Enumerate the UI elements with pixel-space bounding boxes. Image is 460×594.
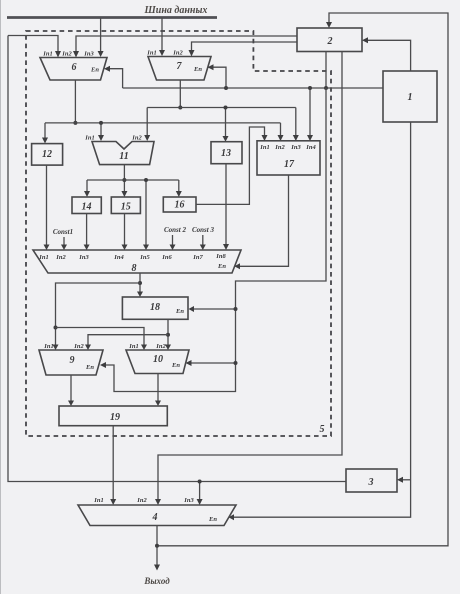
svg-text:En: En [85, 364, 94, 371]
svg-text:In3: In3 [83, 51, 94, 58]
svg-text:Const 2: Const 2 [164, 226, 186, 234]
svg-text:In2: In2 [55, 254, 66, 261]
block 13 [211, 142, 242, 164]
data bus [7, 16, 217, 19]
block 19 [59, 406, 167, 426]
svg-text:Const 3: Const 3 [192, 226, 214, 234]
block 18 [122, 297, 188, 319]
arrow into En of mux 9 [100, 362, 106, 368]
enable chain from rail down the right side [106, 88, 326, 392]
svg-text:9: 9 [70, 355, 75, 366]
svg-text:In1: In1 [42, 51, 52, 58]
block 1 output down the right side [234, 122, 411, 517]
wire block 2 to In2 of mux 6 [73, 36, 297, 58]
mux 4 [78, 497, 236, 526]
wire enable rail to In4 of block 17 [307, 86, 313, 141]
block 2 second output down to In2 of mux 4 [155, 52, 342, 506]
svg-text:In5: In5 [139, 254, 150, 261]
wire rail to In2 of block 17 [278, 123, 284, 141]
block 3 [346, 469, 397, 492]
svg-text:2: 2 [327, 36, 333, 47]
wire In1 of mux 6 from left feedback rail [8, 36, 61, 58]
mux 8 [33, 250, 241, 274]
mux 10 [126, 343, 189, 374]
block 18 output branch to In2 of mux 9 [85, 335, 168, 350]
svg-text:In2: In2 [274, 144, 285, 151]
svg-text:In1: In1 [259, 144, 269, 151]
wire block 14 to In3 of mux 8 [84, 214, 90, 251]
svg-text:In4: In4 [113, 254, 124, 261]
mux 11 [84, 135, 154, 165]
mux 6 output drop [73, 80, 77, 125]
Const 2 input [164, 226, 186, 250]
svg-text:Const1: Const1 [53, 228, 73, 236]
wire rail to block 14 [84, 180, 90, 197]
wire En of block 18 [189, 306, 238, 312]
svg-text:8: 8 [132, 263, 137, 274]
svg-text:En: En [171, 362, 180, 369]
mux 7 output drop [178, 80, 182, 110]
wire block 13 to In8 of mux 8 [223, 164, 229, 250]
mux 9 output to block 19 [68, 375, 74, 406]
svg-text:12: 12 [42, 149, 52, 160]
mux 9 [39, 343, 103, 375]
svg-text:In2: In2 [172, 50, 183, 57]
block 19 output to In1 of mux 4 [110, 426, 116, 505]
mux 8 output branch to mux 9 and mux 10 [53, 283, 141, 350]
svg-text:In1: In1 [84, 135, 94, 142]
block 14 [72, 197, 101, 214]
svg-text:1: 1 [408, 92, 413, 103]
mux 7 output rail [147, 107, 296, 109]
wire rail to In2 of mux 11 [144, 108, 150, 142]
block 15 [111, 197, 140, 214]
wire block 16 to In1 of block 17 [196, 127, 268, 204]
svg-text:In6: In6 [161, 254, 172, 261]
wire enable rail to En of mux 7 [208, 64, 229, 90]
wire rail to block 12 [42, 123, 48, 144]
svg-text:5: 5 [320, 424, 325, 435]
mux 4 output to Выход [154, 526, 160, 571]
svg-text:In3: In3 [290, 144, 301, 151]
svg-text:13: 13 [221, 148, 231, 159]
svg-text:En: En [208, 516, 217, 523]
mux 7 [146, 50, 211, 81]
svg-text:In2: In2 [61, 51, 72, 58]
wire rail to block 16 [176, 180, 182, 197]
feedback wire output to top of block 2 [157, 13, 448, 546]
wire rail to In3 of mux 4 [197, 480, 203, 506]
Const1 input [53, 228, 73, 250]
mux 11 output drop [121, 165, 127, 197]
svg-text:In3: In3 [78, 254, 89, 261]
block 3 output rail to In3 of mux 4 and feedback [8, 36, 346, 482]
svg-text:19: 19 [110, 412, 120, 423]
wire block 12 to In1 of mux 8 [44, 165, 50, 250]
svg-text:En: En [217, 263, 226, 270]
Const 3 input [192, 226, 214, 250]
svg-text:17: 17 [284, 159, 295, 170]
wire block 2 to In2 of mux 7 [189, 42, 298, 57]
svg-text:11: 11 [119, 151, 128, 162]
svg-text:En: En [175, 308, 184, 315]
svg-text:En: En [193, 66, 202, 73]
wire bus to In3 of mux 6 [98, 18, 104, 57]
svg-text:In4: In4 [305, 144, 316, 151]
svg-text:In8: In8 [215, 253, 226, 260]
svg-text:In1: In1 [43, 343, 53, 350]
wire block 17 output to En of mux 8 [234, 175, 288, 269]
svg-text:In2: In2 [73, 343, 84, 350]
enable rail from block 2 bottom to block 1 [123, 87, 383, 89]
svg-text:3: 3 [368, 477, 374, 488]
wire rail to block 13 [223, 106, 229, 142]
wire enable rail to En of mux 6 [104, 66, 123, 88]
svg-text:In1: In1 [146, 50, 156, 57]
svg-text:10: 10 [153, 354, 163, 365]
block 18 output to In2 of mux 10 [165, 319, 171, 350]
wire En of mux 10 [186, 360, 238, 366]
svg-text:4: 4 [152, 512, 158, 523]
block 12 [32, 144, 63, 166]
svg-text:16: 16 [175, 200, 185, 211]
svg-text:Шина данных: Шина данных [144, 5, 208, 16]
svg-text:6: 6 [72, 62, 77, 73]
mux 8 output to block 18 [137, 273, 143, 297]
mux 10 output to block 19 [155, 374, 161, 407]
block 17 [257, 141, 320, 175]
svg-text:In2: In2 [155, 343, 166, 350]
svg-text:In2: In2 [136, 497, 147, 504]
block 16 [163, 197, 196, 212]
mux 11 output rail [87, 179, 179, 181]
mux 6 output rail [45, 122, 281, 124]
wire rail to In5 of mux 8 [143, 178, 149, 250]
svg-text:In1: In1 [93, 497, 103, 504]
block 1 [383, 71, 437, 122]
wire bus to In1 of mux 7 [159, 18, 165, 56]
svg-text:Выход: Выход [143, 576, 170, 586]
branch rail to In1 of mux 10 [56, 328, 148, 351]
block 2 output drop to enable rail [324, 52, 328, 91]
arrow into En of mux 4 [229, 514, 235, 520]
block 2 [297, 28, 362, 52]
svg-text:14: 14 [82, 202, 92, 213]
dashed boundary of block 5 [26, 31, 331, 436]
wire block 1 to block 3 [397, 477, 411, 483]
mux 6 [40, 51, 107, 81]
wire block 1 to block 2 [362, 37, 411, 70]
svg-text:En: En [90, 67, 99, 74]
wire block 15 to In4 of mux 8 [122, 214, 128, 251]
svg-text:18: 18 [150, 302, 160, 313]
svg-text:In7: In7 [192, 254, 203, 261]
svg-text:15: 15 [121, 202, 131, 213]
svg-text:In2: In2 [131, 135, 142, 142]
svg-text:In1: In1 [38, 254, 48, 261]
svg-text:In3: In3 [183, 497, 194, 504]
wire rail to In3 of block 17 [293, 108, 299, 142]
wire rail to In1 of mux 11 [98, 121, 104, 141]
svg-text:In1: In1 [128, 343, 138, 350]
